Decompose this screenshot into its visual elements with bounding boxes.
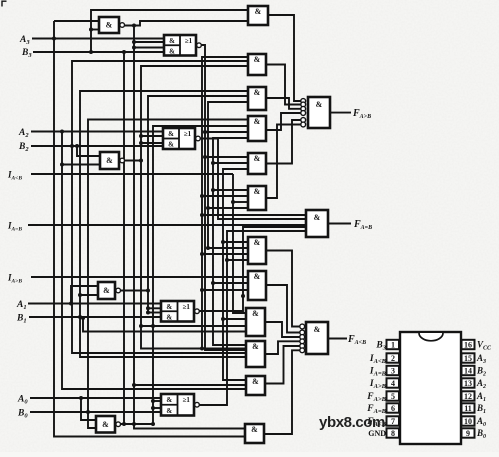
and-gate R1 [248, 54, 266, 75]
wire N3 input B3 [91, 29, 99, 31]
svg-text:3: 3 [391, 366, 395, 375]
node AOI1 x [241, 294, 245, 298]
pin 12 label [476, 391, 486, 403]
svg-text:9: 9 [466, 429, 470, 438]
bubble FALB in6 [300, 348, 305, 353]
node N3 input B3 [89, 28, 93, 32]
wire N1 output [121, 290, 149, 292]
svg-text:&: & [166, 396, 172, 404]
bubble FAGB in4 [301, 111, 306, 116]
wire bus213 stub163 [213, 162, 248, 164]
corner registration mark [2, 1, 7, 6]
wire R9 output [265, 341, 300, 354]
wire R6 output [266, 251, 300, 327]
wire AOI0 in stub2 [153, 407, 161, 409]
wire N3 output [125, 21, 249, 26]
nand-gate N0 [96, 416, 120, 433]
wire N1 input A1 [71, 286, 98, 304]
nand-gate N1 [98, 282, 120, 299]
pin 8 label GND [368, 429, 386, 438]
input label B1 [16, 314, 27, 325]
output label FA>B [352, 108, 371, 120]
wire A1 [28, 303, 161, 305]
pin 6 box [387, 403, 400, 413]
wire AOI3 in stub1 [134, 41, 164, 43]
bubble FALB in4 [300, 339, 305, 344]
pin 13 box [462, 378, 475, 388]
svg-text:1: 1 [391, 340, 395, 349]
node bus208 b [206, 246, 210, 250]
wire B1 tap R8 [83, 318, 246, 332]
node N1 in B1 [78, 293, 82, 297]
wire AOI2 output [200, 139, 306, 220]
svg-text:&: & [254, 272, 261, 281]
svg-text:≥1: ≥1 [183, 396, 191, 404]
wire AOI3 in stub2 [134, 47, 164, 49]
pin 14 box [462, 366, 475, 376]
node N0 out b [151, 422, 155, 426]
and-gate R8 [246, 308, 265, 336]
node N0 out a [132, 422, 136, 426]
wire N2bar riser [141, 66, 248, 349]
wire IA<B riser [233, 174, 246, 313]
wire bus213 stub190 [213, 189, 248, 191]
bubble FALB in2 [300, 330, 305, 335]
wire FAGB output [330, 112, 351, 114]
pin 6 label [366, 404, 386, 415]
wire IA>B [31, 276, 248, 278]
xnor AOI0 [161, 394, 199, 416]
node bus213 a [211, 161, 215, 165]
wire A3 [32, 38, 164, 40]
node bus213 b [211, 188, 215, 192]
node N1 in A1 [69, 302, 73, 306]
wire R3 output [266, 113, 301, 130]
wire AOI1 in stub1 [148, 307, 161, 309]
node N2 out [139, 159, 143, 163]
svg-text:&: & [314, 325, 321, 334]
svg-text:&: & [251, 425, 258, 434]
wire A2 [31, 131, 163, 133]
and-gate R11 [245, 424, 264, 443]
pin 16 label [477, 340, 492, 352]
input label A3 [19, 35, 30, 46]
IC body [400, 332, 461, 444]
wire N2 input A2 [62, 164, 100, 166]
svg-text:4: 4 [391, 379, 395, 388]
node AOI3 stub1 [132, 40, 136, 44]
wire bus x223 [223, 169, 248, 380]
and-gate R2 [248, 87, 266, 110]
node B3 drop bottom [122, 422, 126, 426]
wire AOI2 in stub1 [141, 135, 163, 137]
pin 5 box [387, 391, 400, 401]
wire bus223 stub319 [223, 318, 246, 320]
wire N0 input A0 [81, 398, 96, 420]
pin 11 box [462, 403, 475, 413]
pin 3 box [387, 366, 400, 376]
pin 2 box [387, 353, 400, 363]
node N0bar R8 [151, 324, 155, 328]
node N0bar b [151, 406, 155, 410]
and-gate R3 [248, 116, 266, 141]
svg-text:&: & [166, 313, 172, 321]
wire B2 bus [72, 61, 248, 353]
svg-text:&: & [168, 141, 174, 149]
output label FA=B [353, 219, 372, 231]
input label IA>B [7, 273, 22, 285]
wire R4 output [266, 120, 301, 164]
svg-text:&: & [106, 156, 113, 165]
wire bus233 stub202 [233, 201, 248, 203]
pin 2 label [369, 354, 387, 365]
svg-text:6: 6 [391, 404, 395, 413]
node bus202 d [200, 288, 204, 292]
input label IA<B [7, 170, 22, 182]
node B1 tap [78, 315, 82, 319]
wire A2 bus [62, 132, 246, 390]
node N3bar R10 [132, 383, 136, 387]
wire bus208 stub248 [208, 247, 248, 249]
svg-text:11: 11 [464, 404, 472, 413]
wire N2bar stub R8 [141, 325, 246, 327]
svg-text:&: & [254, 55, 261, 64]
node N2 in A2 [60, 163, 64, 167]
wire FALB output [328, 338, 347, 340]
wire bus213 stub283 [213, 282, 248, 284]
bubble FALB in3 [300, 335, 305, 340]
wire R1 output [266, 65, 301, 105]
svg-text:&: & [252, 377, 259, 386]
wire N0bar riser [153, 126, 248, 424]
and-gate R7 [248, 271, 266, 300]
watermark [319, 414, 385, 431]
wire R5 output [266, 125, 301, 199]
input label A2 [18, 128, 29, 139]
node N0 in A0 [79, 396, 83, 400]
pin 12 box [462, 391, 475, 401]
svg-text:≥1: ≥1 [184, 130, 192, 138]
wire N1bar riser [148, 96, 248, 314]
wire B3 drop [123, 52, 125, 424]
node AOI1 stub1 [146, 306, 150, 310]
wire B0 bus [88, 120, 248, 429]
svg-text:&: & [254, 117, 261, 126]
svg-text:&: & [169, 47, 175, 55]
pin 7 box [387, 416, 400, 426]
wire R11 output [264, 350, 300, 434]
wire N3bar stub R10 [134, 384, 246, 386]
node AOI1 stub2 [146, 311, 150, 315]
pin 15 box [462, 353, 475, 363]
wire N1 input B1 [80, 294, 98, 296]
pin 3 label [369, 367, 387, 378]
wire bus202 stub196 [202, 195, 248, 197]
and-gate R0 [248, 6, 268, 25]
wire bus x208 [208, 102, 248, 249]
svg-text:&: & [255, 7, 262, 16]
svg-text:14: 14 [464, 366, 472, 375]
node bus208 a [206, 206, 210, 210]
wire R8 output [265, 322, 300, 337]
wire AOI0 in stub1 [153, 400, 161, 402]
pin 13 label [476, 378, 486, 390]
svg-text:&: & [314, 213, 321, 222]
pin 9 box [462, 428, 475, 438]
wire bus x202 [202, 57, 248, 349]
wire B1 [29, 316, 161, 318]
svg-text:7: 7 [391, 417, 395, 426]
pin 10 label [476, 416, 486, 428]
pin 5 label [366, 392, 386, 403]
wire IA<B [31, 173, 233, 175]
wire N3 input A3 [54, 20, 99, 22]
nand-gate U-FAGB [308, 97, 330, 128]
node bus233 a [231, 200, 235, 204]
pin 14 label [476, 366, 486, 378]
svg-text:&: & [254, 187, 261, 196]
node AOI3 stub2 [132, 46, 136, 50]
wire B0 [30, 411, 161, 413]
svg-text:&: & [254, 238, 261, 247]
svg-text:&: & [166, 303, 172, 311]
node N3 out [132, 24, 136, 28]
xnor AOI2 [163, 128, 200, 149]
svg-text:13: 13 [464, 379, 472, 388]
input label B2 [18, 142, 29, 153]
wire bus202 stub215 [202, 214, 306, 216]
wire B3 riser [91, 10, 248, 52]
pin 7 label [366, 417, 386, 428]
bubble FAGB in3 [301, 106, 306, 111]
wire AOI0 output [199, 231, 306, 405]
wire IA=B [28, 224, 306, 226]
svg-text:&: & [252, 342, 259, 351]
wire R0 output [268, 15, 301, 101]
nand-gate U-FALB [306, 322, 328, 354]
wire bus x213 [213, 138, 248, 345]
IC notch [419, 333, 443, 341]
svg-text:&: & [254, 154, 261, 163]
nand-gate N2 [100, 152, 124, 169]
svg-text:&: & [106, 21, 113, 30]
node bus223 a [221, 240, 225, 244]
wire bus202 stub254 [202, 253, 248, 255]
wire bus223 stub242 [223, 241, 248, 243]
pin 11 label [476, 403, 486, 415]
svg-text:8: 8 [391, 429, 395, 438]
svg-text:15: 15 [464, 354, 472, 363]
svg-text:2: 2 [391, 354, 395, 363]
bubble FAGB in5 [301, 118, 306, 123]
node AOI2 stub2 [139, 141, 143, 145]
node bus202 c [200, 252, 204, 256]
node B3 tap [89, 50, 93, 54]
pin 4 label [369, 379, 387, 390]
wire R2 output [266, 98, 301, 109]
wire bus202 stub290 [202, 289, 248, 291]
svg-text:16: 16 [464, 340, 472, 349]
xnor AOI1 [161, 301, 199, 322]
input label B3 [21, 48, 32, 59]
node bus202 a [200, 194, 204, 198]
wire B1 bus [80, 91, 248, 357]
wire N2 input B2 [77, 146, 100, 156]
and-gate R10 [246, 376, 265, 395]
svg-text:5: 5 [391, 392, 395, 401]
svg-text:&: & [252, 309, 259, 318]
node N2 in B2 [75, 144, 79, 148]
output label FA<B [347, 334, 366, 346]
svg-text:10: 10 [464, 417, 472, 426]
pin 9 label [476, 428, 486, 440]
svg-text:≥1: ≥1 [183, 303, 191, 311]
node bus202 b [200, 213, 204, 217]
node AOI3 b [203, 155, 207, 159]
wire AOI3 stub157 [205, 156, 248, 158]
node AOI0 x1 [225, 258, 229, 262]
node B0 tap [86, 410, 90, 414]
nand-gate N3 [99, 17, 124, 33]
wire A0 [30, 397, 161, 399]
wire N0 input B0 [88, 427, 96, 429]
svg-text:&: & [169, 37, 175, 45]
node bus213 c [211, 281, 215, 285]
bubble FAGB in2 [301, 102, 306, 107]
node bus223 b [221, 317, 225, 321]
svg-text:&: & [103, 286, 110, 295]
wire AOI1 in stub2 [148, 312, 161, 314]
pin 4 box [387, 378, 400, 388]
node B2 tap [70, 144, 74, 148]
svg-text:&: & [254, 88, 261, 97]
svg-text:≥1: ≥1 [185, 37, 193, 45]
input label B0 [17, 409, 28, 420]
node A2 tap [60, 130, 64, 134]
wire R7 output [266, 285, 300, 333]
wire R10 output [265, 346, 300, 384]
node N1 out [146, 289, 150, 293]
and-gate U-FAEB [306, 210, 328, 237]
input label A1 [16, 300, 27, 311]
wire N2 output [125, 160, 142, 162]
input label IA=B [7, 221, 22, 233]
wire bus208 stub208 [208, 207, 248, 209]
wire AOI3 output [201, 45, 248, 350]
svg-text:&: & [316, 100, 323, 109]
wire bus227 stub260 [227, 259, 248, 261]
wire FAEB output [328, 223, 351, 225]
bubble FALB in1 [300, 324, 305, 329]
node A3 tap [52, 37, 56, 41]
wire N0 output [121, 423, 154, 425]
node B1 tap2 [81, 316, 85, 320]
node N2bar R9 [200, 347, 204, 351]
xnor AOI3 [164, 35, 201, 56]
and-gate R6 [248, 237, 266, 264]
bubble FALB in5 [300, 344, 305, 349]
svg-text:12: 12 [464, 392, 472, 401]
svg-text:&: & [102, 420, 109, 429]
pin 16 box [462, 340, 475, 350]
wire A3 bus [54, 21, 248, 437]
and-gate R5 [248, 186, 266, 210]
svg-text:ybx8.com: ybx8.com [319, 414, 385, 431]
node B3 drop top [122, 50, 126, 54]
node AOI2 stub1 [139, 134, 143, 138]
and-gate R4 [248, 153, 266, 174]
pin 15 label [476, 353, 486, 365]
node AOI3 a [203, 130, 207, 134]
bubble FAGB in1 [301, 99, 306, 104]
svg-text:&: & [168, 130, 174, 138]
wire B3 [33, 51, 164, 53]
wire B2 [31, 145, 163, 147]
wire AOI1 output [199, 227, 306, 311]
svg-text:&: & [166, 407, 172, 415]
node N0bar a [151, 399, 155, 403]
input label A0 [17, 395, 28, 406]
pin 1 label [375, 341, 386, 352]
wire N3bar riser [134, 26, 245, 429]
pin 10 box [462, 416, 475, 426]
node N2bar R8 [139, 324, 143, 328]
wire AOI2 in stub2 [141, 142, 163, 144]
pin 8 box [387, 428, 400, 438]
pin 1 box [387, 340, 400, 350]
and-gate R9 [246, 341, 265, 367]
wire AOI3 stub132 [205, 131, 248, 133]
bubble FAGB in6 [301, 122, 306, 127]
